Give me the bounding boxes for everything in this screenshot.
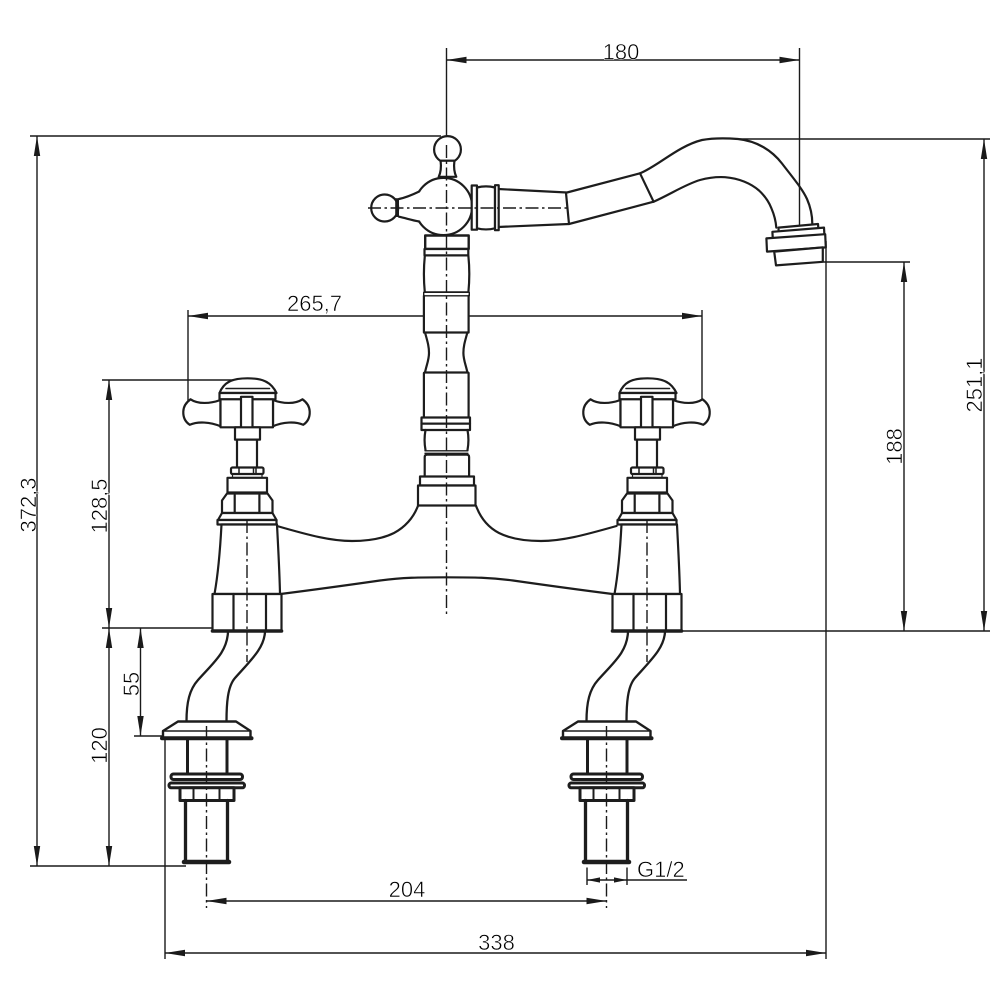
centerline spout tube bbox=[368, 207, 569, 209]
dimension 265,7 bbox=[188, 291, 702, 424]
centerline right shank bbox=[606, 726, 608, 908]
skirt bbox=[218, 513, 277, 520]
svg-text:338: 338 bbox=[478, 930, 515, 955]
dimension 188 right bbox=[823, 262, 910, 631]
cross handle bbox=[220, 378, 277, 393]
valve head ball body bbox=[415, 178, 472, 235]
svg-text:188: 188 bbox=[882, 428, 907, 465]
dimension 338 bottom bbox=[165, 241, 826, 959]
dimension 120 left bbox=[87, 628, 112, 866]
dimension 251,1 right bbox=[680, 139, 990, 631]
centerline left shank bbox=[206, 726, 208, 908]
turned column below head bbox=[418, 236, 476, 506]
svg-text:128,5: 128,5 bbox=[87, 478, 112, 533]
dimension 204 bottom bbox=[207, 877, 607, 904]
centerline column bbox=[446, 145, 448, 617]
big hex nut bbox=[213, 594, 282, 631]
stem bbox=[235, 427, 260, 439]
svg-text:G1/2: G1/2 bbox=[637, 857, 685, 882]
spout connector flange bbox=[472, 185, 499, 230]
svg-text:180: 180 bbox=[603, 40, 640, 65]
svg-text:120: 120 bbox=[87, 727, 112, 764]
centerline left valve bbox=[246, 520, 248, 662]
small ball handle on left of head bbox=[371, 191, 421, 222]
body bridge bbox=[277, 506, 617, 594]
ball finial on top bbox=[434, 136, 461, 177]
valve body bbox=[215, 525, 281, 595]
dimension 55 left bbox=[119, 628, 164, 736]
right handle + valve assembly bbox=[583, 378, 709, 631]
spout nozzle aerator bbox=[766, 224, 825, 265]
dimension 180 top bbox=[447, 40, 800, 263]
shank column bbox=[169, 738, 245, 862]
spout arm bbox=[498, 138, 812, 227]
svg-text:372,3: 372,3 bbox=[16, 477, 41, 532]
centerline right valve bbox=[646, 520, 648, 662]
dimension G1/2 bbox=[587, 857, 687, 885]
dimension 372,3 left bbox=[16, 136, 441, 866]
svg-text:55: 55 bbox=[119, 672, 144, 696]
hex bonnet bbox=[222, 494, 273, 514]
svg-text:204: 204 bbox=[389, 877, 426, 902]
right leg bbox=[562, 632, 665, 862]
svg-text:265,7: 265,7 bbox=[287, 291, 342, 316]
svg-text:251,1: 251,1 bbox=[962, 357, 987, 412]
deck flange bbox=[162, 722, 252, 739]
dimension 128,5 left bbox=[87, 380, 240, 628]
left handle + valve assembly bbox=[183, 378, 309, 631]
left leg bbox=[162, 632, 265, 862]
